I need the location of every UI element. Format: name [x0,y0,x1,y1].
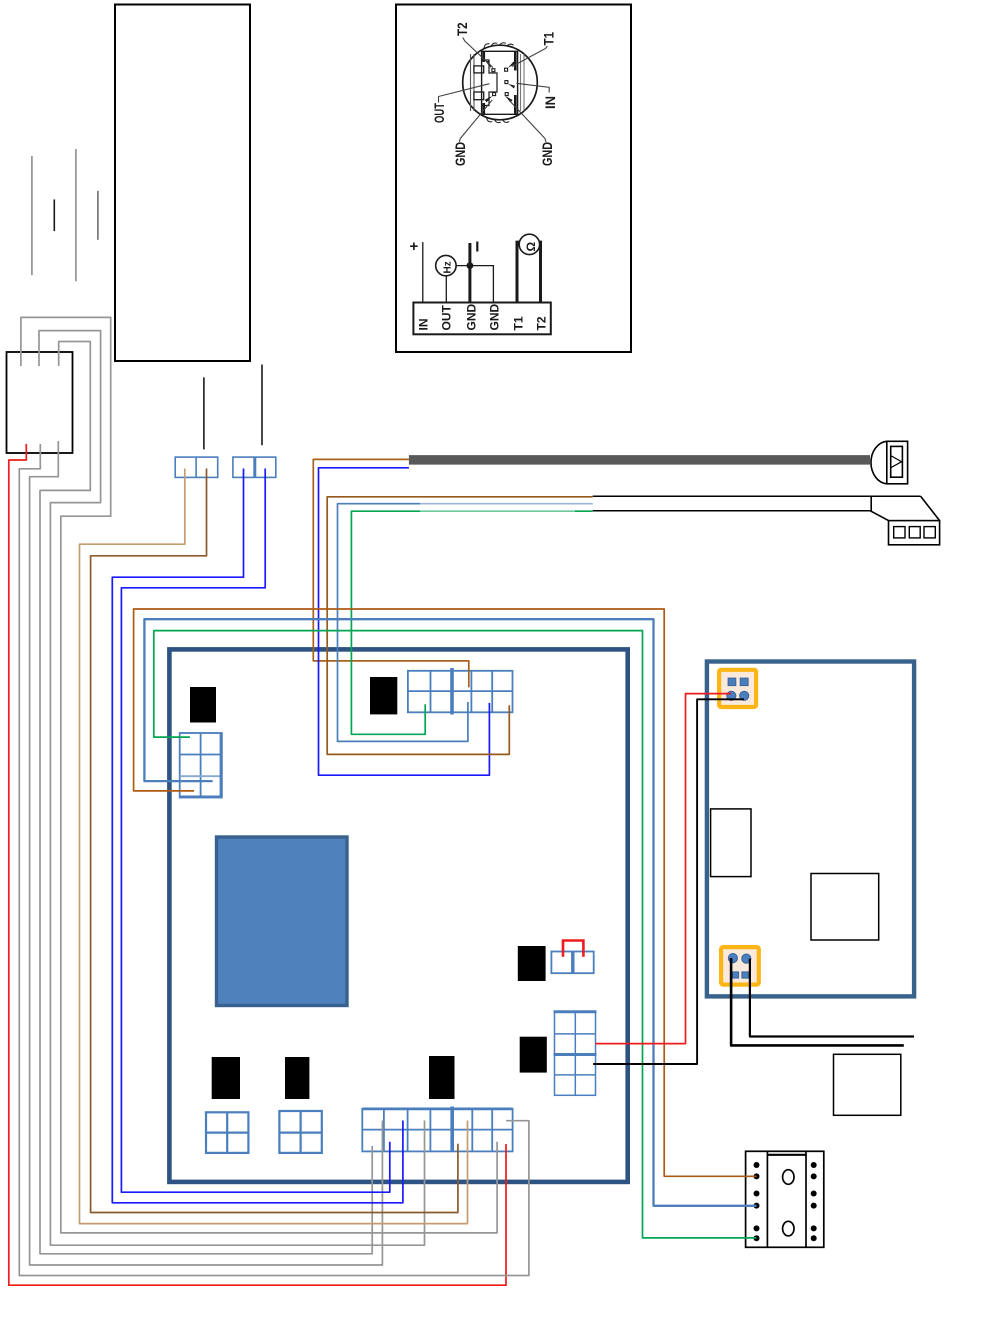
svg-text:GND: GND [539,142,555,166]
OUT test wire [445,276,447,303]
wire black (P3 to CN1) [593,699,744,1064]
svg-text:T2: T2 [454,22,470,36]
pin arrows [485,61,516,103]
wire gray C (control box top loop to P6) [39,331,425,1246]
header P1 (2x3 grid, left edge of board) [180,733,222,798]
wire gray A (control box top loop to P6) [21,317,497,1233]
wire blue 2 (J2 pin1 to P6) [112,469,403,1203]
IC U1 [190,687,216,723]
wire black (CN2 pin2 down) [750,959,914,1037]
contact hairs top [484,43,514,49]
svg-text:Ω: Ω [524,242,538,252]
jumper block J3 (2-pole with red link) [551,952,593,974]
sensor probe at cable end [871,441,908,484]
IN test wire [422,242,424,302]
svg-text:GND: GND [464,304,478,331]
wire red (P3 to CN1) [596,694,732,1044]
svg-text:T2: T2 [535,316,549,330]
header P4 (2x2) [206,1112,248,1153]
pinout circle [463,45,538,120]
antenna wire 1 (floating vertical) [31,156,33,275]
wire green (flat cable to P2) [420,510,575,512]
Hz meter [436,255,456,275]
wire brown (P1 to TB1 pin2) [134,609,757,1176]
aux box (white rect, below panel) [834,1054,901,1115]
IC U3 [518,946,546,981]
svg-text:IN: IN [417,319,431,331]
leader line IN [516,83,549,92]
contact hairs bottom [487,118,510,123]
red jumper link [563,941,583,957]
svg-text:+: + [410,238,419,255]
wire gray B (control box to P6) [30,441,383,1265]
leader line GND left [459,100,492,142]
header P3 (2x4 grid, right-center of board) [554,1012,597,1096]
terminal strip [413,303,550,335]
gray sensor cable (thick) [409,455,870,465]
leader line T1 [512,46,547,67]
Hz to GND2 wire [456,266,493,303]
svg-text:T1: T1 [541,32,557,46]
IC U5 [212,1057,240,1099]
sensor detail box (top middle) [396,5,631,353]
power connector CN2 (orange) [721,947,759,985]
wire gray E (control box to P6 via right jog) [19,444,529,1276]
wire tan (J1 pin1 to P6) [80,469,468,1224]
wire gray D (control box top loop to P6) [40,342,372,1254]
display module box (tall rectangle top-left) [115,5,250,362]
svg-text:GND: GND [488,304,502,331]
wire green (P1 to TB1 pin6) [154,631,757,1238]
IC U2 [370,677,397,714]
wire light blue (P1 to TB1 pin4) [144,619,756,1206]
relay K2 (white rect) [811,874,879,941]
wire brown (J1 pin2 to P6) [91,469,458,1213]
IC U7 [429,1056,455,1099]
flat white cable [593,496,921,511]
IC U6 [285,1057,309,1099]
sensor package drawing [471,51,525,114]
svg-text:GND: GND [452,142,468,166]
TB1 pins right [811,1162,817,1241]
antenna wire 4 [97,191,99,240]
wire dark brown (flat cable to P2) [327,497,593,755]
TB1 pins left [754,1162,760,1241]
power connector CN1 (orange) [719,670,756,707]
header P2 (2x5 grid, top of board) [408,668,513,715]
wire blue 1 (J2 pin2 to P6) [121,469,389,1193]
header P5 (2x2) [279,1111,321,1153]
connector J2 (2-pole) [233,457,276,477]
IC U4 [520,1037,547,1073]
connector J1 (2-pole, below display) [175,457,218,477]
leader line GND right [509,100,546,142]
wire light blue (flat cable to P2) [420,503,593,505]
svg-text:OUT: OUT [440,305,454,331]
svg-text:OUT: OUT [431,103,447,123]
TB1 screws [783,1170,794,1185]
svg-text:T1: T1 [512,316,526,330]
junction dot [467,262,474,269]
wire blue (gray cable to P2) [319,468,490,775]
wire stub to J1 [203,377,205,449]
wire brown (gray cable to P2 top) [313,459,469,687]
wire black (CN2 pin1 down) [731,958,904,1045]
svg-text:IN: IN [542,96,558,109]
ohmmeter loop T1-T2 (bold) [517,242,541,302]
processor (big blue square) [217,837,348,1006]
relay K1 (white rect) [711,809,751,877]
main board outline [169,649,627,1182]
svg-text:Hz: Hz [443,261,454,273]
relay module outline [707,662,914,997]
minus sign [476,242,478,252]
header P6 (2x7 long grid, bottom of board) [362,1107,512,1152]
sensor pins [492,68,508,95]
antenna wire 2 (short black) [53,199,55,231]
leader line T2 [463,38,493,68]
ohm meter [519,234,539,254]
3-pin plug at cable end [870,496,939,545]
wire red (control box to P6) [9,444,506,1285]
GND1 test wire (bold) [468,243,471,303]
leader line OUT [439,84,490,103]
antenna wire 3 [75,149,77,281]
control unit box (small, left) [7,352,73,453]
wire stub to J2 [261,365,263,446]
